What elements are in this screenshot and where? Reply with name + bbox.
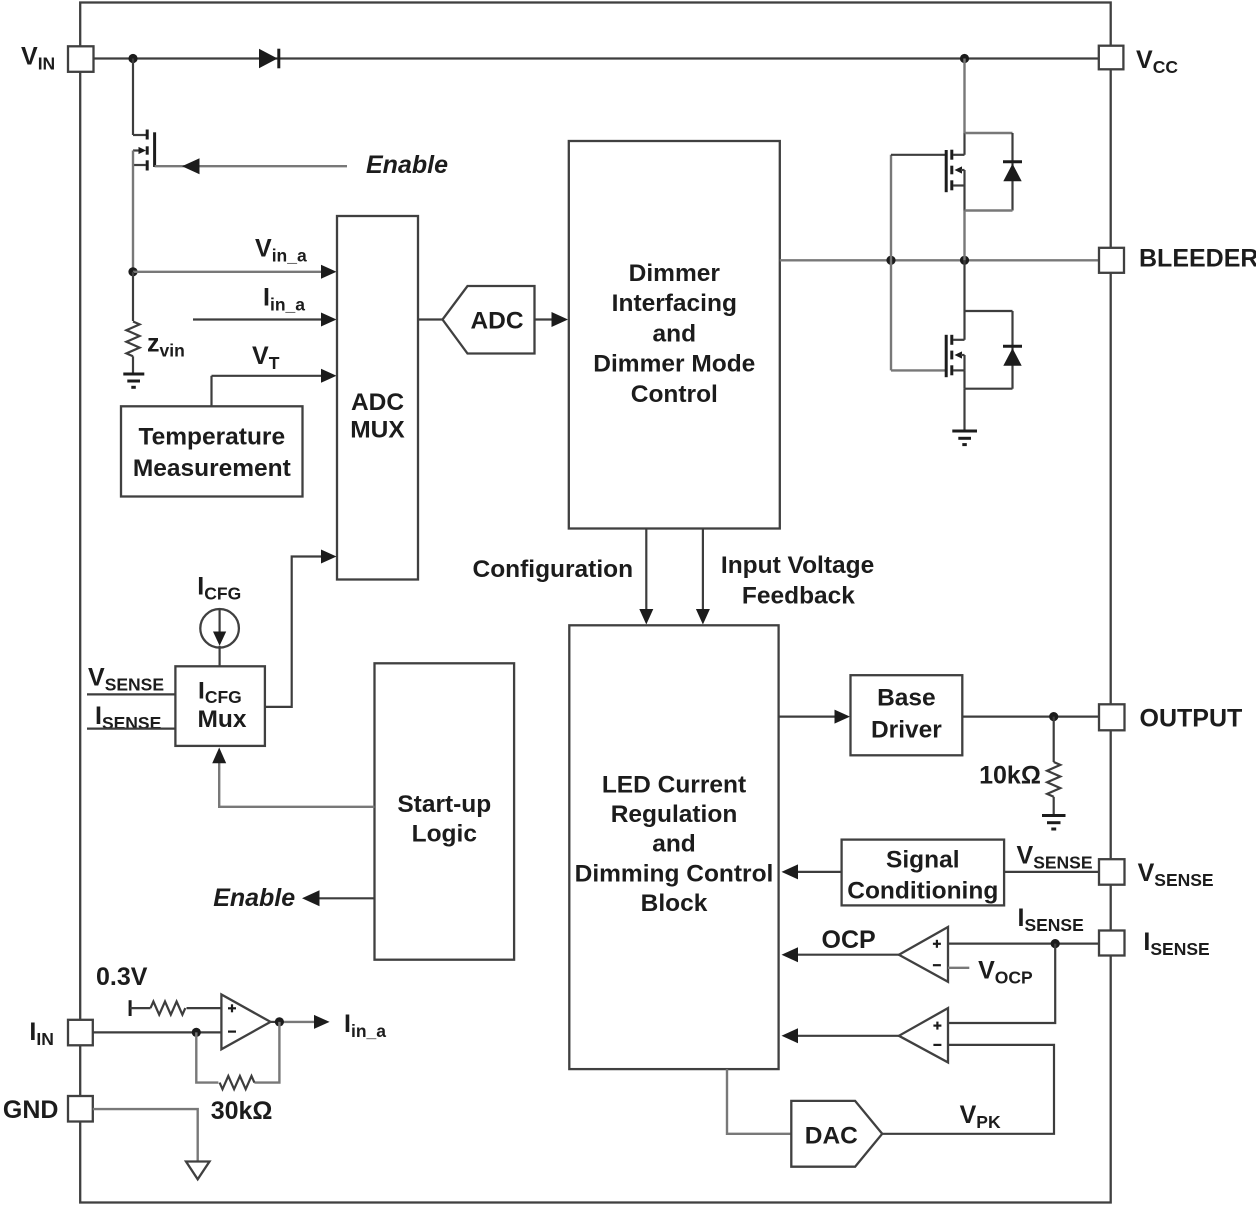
- ground at 10k resistor: [1042, 816, 1066, 830]
- ground at Zvin: [123, 374, 144, 387]
- diode D2 body diode of M2: [965, 133, 1023, 211]
- wire start-up logic to mux select: [212, 748, 374, 807]
- ground at bleeder: [952, 431, 977, 445]
- svg-text:Dimmer Mode: Dimmer Mode: [593, 351, 755, 378]
- node feedback junction: [192, 1028, 201, 1037]
- svg-text:DAC: DAC: [805, 1123, 858, 1150]
- svg-text:Feedback: Feedback: [742, 582, 855, 609]
- svg-text:Interfacing: Interfacing: [612, 290, 737, 317]
- op-amp U2 peak comparator: [899, 1008, 948, 1062]
- resistor R2 input series: [130, 1002, 221, 1015]
- svg-text:Driver: Driver: [871, 717, 942, 744]
- wire peak comparator output to LED block: [782, 1028, 899, 1043]
- wire I_SENSE into mux: [87, 727, 175, 729]
- wire LED block to DAC: [727, 1069, 791, 1134]
- pin GND: [3, 1096, 93, 1124]
- wire M3 source to ground: [963, 389, 965, 430]
- svg-text:Dimming Control: Dimming Control: [575, 860, 774, 887]
- wire LED block to base driver: [779, 710, 850, 724]
- node junction at VIN: [128, 54, 137, 63]
- pin I_SENSE: [1099, 928, 1210, 959]
- svg-text:Control: Control: [631, 381, 718, 408]
- wire GND pin to ground symbol: [93, 1109, 198, 1160]
- transistor M3 lower bleeder FET: [891, 311, 965, 389]
- node Vin_a junction: [128, 267, 137, 276]
- wire dimmer block to BLEEDER pin: [780, 259, 1099, 261]
- wire amp output Iin_a: [271, 1015, 330, 1029]
- pin BLEEDER: [1099, 244, 1256, 273]
- svg-text:10kΩ: 10kΩ: [979, 762, 1041, 790]
- svg-text:GND: GND: [3, 1096, 59, 1124]
- wire OCP output to LED block: [782, 947, 899, 962]
- svg-text:and: and: [653, 320, 697, 347]
- svg-text:Configuration: Configuration: [473, 556, 634, 583]
- transistor M2 upper bleeder FET: [891, 133, 965, 211]
- wire M1 source down to Vin_a node: [132, 151, 134, 272]
- wire V_PK to peak comparator minus input: [882, 1045, 1054, 1134]
- op-amp U3 input amplifier: [221, 995, 270, 1050]
- diode D3 body diode of M3: [965, 311, 1023, 389]
- pin OUTPUT: [1099, 704, 1242, 732]
- svg-text:MUX: MUX: [350, 416, 405, 443]
- diode D1 on supply rail: [259, 49, 279, 69]
- wire Iin_a to ADC MUX: [193, 313, 337, 327]
- svg-text:OUTPUT: OUTPUT: [1140, 705, 1243, 733]
- wire gate column for bleeder FETs: [890, 155, 892, 371]
- net label Input Voltage Feedback: [721, 552, 874, 610]
- svg-text:LED Current: LED Current: [602, 771, 746, 798]
- pin V_SENSE: [1099, 859, 1214, 890]
- wire V_SENSE pin to signal conditioning: [1004, 871, 1099, 873]
- wire Vin_a to ADC MUX: [133, 265, 337, 279]
- wire I_IN pin to amp minus input: [93, 1031, 222, 1033]
- block Dimmer Interfacing and Dimmer Mode Control: [569, 141, 780, 529]
- op-amp U1 OCP comparator: [899, 927, 948, 982]
- wire V_T from temperature block to ADC MUX: [212, 369, 337, 407]
- svg-text:Conditioning: Conditioning: [847, 878, 998, 905]
- transistor M1 enable switch: [133, 59, 155, 171]
- current source I_CFG: [200, 609, 239, 666]
- wire input voltage feedback arrow: [696, 529, 710, 625]
- resistor R1 10k pulldown: [979, 717, 1060, 814]
- svg-text:0.3V: 0.3V: [96, 963, 148, 991]
- node I_SENSE junction: [1051, 939, 1060, 948]
- svg-text:Dimmer: Dimmer: [629, 260, 721, 287]
- wire VIN to VCC top rail: [94, 57, 1100, 59]
- wire configuration arrow: [639, 529, 653, 625]
- wire ADC MUX to ADC: [418, 318, 443, 320]
- resistor Zvin: [126, 272, 184, 373]
- svg-text:Base: Base: [877, 684, 936, 711]
- svg-text:Start-up: Start-up: [397, 791, 491, 818]
- wire ADC to dimmer block: [535, 312, 569, 327]
- resistor R3 30k feedback: [196, 1022, 279, 1125]
- wire bleeder node down to M3: [963, 260, 965, 311]
- wire enable to M1 gate: [155, 158, 347, 174]
- svg-text:and: and: [652, 831, 696, 858]
- wire M2 source to bleeder node: [963, 211, 965, 261]
- block ADC converter: [443, 286, 535, 354]
- svg-text:Logic: Logic: [412, 820, 477, 847]
- svg-text:Measurement: Measurement: [133, 455, 291, 482]
- svg-text:Temperature: Temperature: [139, 424, 286, 451]
- svg-text:Mux: Mux: [198, 706, 247, 733]
- wire I_SENSE pin to OCP comparator: [948, 942, 1099, 944]
- wire mux output to ADC MUX: [265, 550, 337, 707]
- svg-text:Regulation: Regulation: [611, 801, 738, 828]
- pin V_IN: [21, 43, 94, 74]
- wire signal conditioning to LED block: [782, 864, 842, 879]
- voltage source 0.3V bar: [129, 1000, 132, 1016]
- svg-text:ADC: ADC: [351, 389, 404, 416]
- pin I_IN: [29, 1018, 92, 1049]
- svg-text:30kΩ: 30kΩ: [211, 1097, 273, 1125]
- block DAC: [791, 1101, 882, 1167]
- wire I_SENSE node to peak comparator: [948, 944, 1055, 1023]
- node output junction: [1049, 712, 1058, 721]
- svg-text:Block: Block: [641, 890, 708, 917]
- wire V_SENSE into mux: [87, 693, 175, 695]
- node gate column junction: [886, 256, 895, 265]
- svg-text:BLEEDER: BLEEDER: [1139, 244, 1256, 272]
- svg-text:ADC: ADC: [470, 308, 523, 335]
- block ADC MUX: [337, 216, 418, 580]
- block Start-up Logic: [375, 663, 515, 959]
- wire V_OCP stub: [948, 967, 969, 969]
- wire base driver to OUTPUT pin: [962, 715, 1099, 717]
- wire enable output of start-up logic: [302, 890, 375, 906]
- svg-text:OCP: OCP: [822, 926, 876, 954]
- ground triangle symbol: [186, 1162, 210, 1180]
- svg-text:Enable: Enable: [213, 884, 295, 912]
- svg-text:Signal: Signal: [886, 847, 960, 874]
- block Base Driver: [851, 675, 963, 755]
- pin V_CC: [1099, 46, 1179, 77]
- svg-text:Enable: Enable: [366, 151, 448, 179]
- block LED Current Regulation and Dimming Control Block: [569, 625, 778, 1069]
- node bleeder junction: [960, 256, 969, 265]
- node amp output junction: [275, 1017, 284, 1026]
- block Signal Conditioning: [842, 840, 1005, 906]
- node junction at VCC: [960, 54, 969, 63]
- block I_CFG Mux: [175, 666, 265, 746]
- svg-text:Input Voltage: Input Voltage: [721, 552, 874, 579]
- block Temperature Measurement: [121, 406, 303, 496]
- wire VCC node down to M2: [963, 59, 965, 134]
